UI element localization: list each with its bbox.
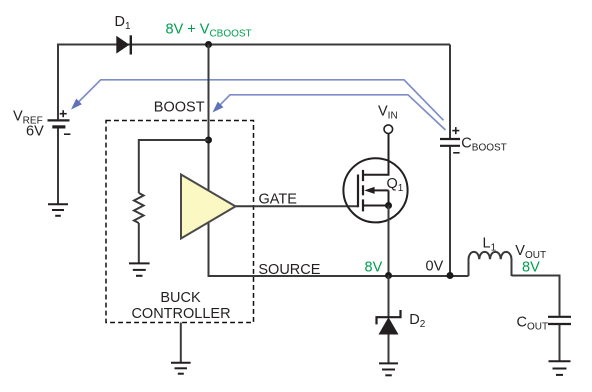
wire L1 to COUT corner <box>512 276 560 316</box>
wire Q1 source down <box>388 206 390 276</box>
node BOOST <box>205 137 212 144</box>
inductor L1 <box>469 252 512 276</box>
wire D2 to ground <box>388 335 390 363</box>
svg-text:BUCK: BUCK <box>160 290 201 306</box>
svg-text:CONTROLLER: CONTROLLER <box>131 306 230 322</box>
svg-text:0V: 0V <box>426 259 444 275</box>
drain lead <box>363 134 389 175</box>
svg-text:GATE: GATE <box>259 191 298 207</box>
op-amp driver triangle <box>181 175 236 239</box>
battery VREF <box>48 120 70 127</box>
node 0V <box>447 272 454 279</box>
ground under D2 <box>379 363 398 375</box>
wire top rail <box>58 44 450 46</box>
svg-text:SOURCE: SOURCE <box>258 262 320 278</box>
blue annotation arrow to VREF + <box>77 80 444 121</box>
wire resistor to ground <box>138 223 140 263</box>
capacitor CBOOST <box>440 139 460 146</box>
svg-text:BOOST: BOOST <box>154 99 205 115</box>
zener diode D2 <box>377 310 426 335</box>
svg-text:8V: 8V <box>365 260 383 276</box>
wire boost vertical (top node down behind amp to source corner) <box>209 45 469 277</box>
wire 8V node to D2 <box>388 276 390 317</box>
ground under resistor <box>129 263 150 275</box>
gate bar <box>357 175 359 208</box>
resistor <box>134 193 144 223</box>
transistor Q1 <box>343 134 407 223</box>
channel bar segments <box>362 170 364 212</box>
wire gate <box>236 205 359 207</box>
diode D1 <box>115 14 131 55</box>
svg-text:8V: 8V <box>522 259 540 275</box>
wire box stem to ground <box>180 323 182 363</box>
wire COUT to ground <box>559 325 561 361</box>
ground under COUT <box>549 361 571 375</box>
wire right rail (CBOOST branch) <box>449 45 451 139</box>
capacitor COUT <box>548 317 571 324</box>
node 8V+VCBOOST <box>205 41 212 48</box>
body arrow <box>373 189 389 191</box>
wire battery to ground <box>57 128 59 203</box>
wire battery riser <box>57 44 59 120</box>
source node dot <box>385 202 392 209</box>
arrow to source connector <box>388 190 390 205</box>
blue annotation arrow to BOOST node <box>218 95 445 130</box>
ground under box <box>171 363 191 374</box>
svg-text:6V: 6V <box>26 124 44 140</box>
source lead <box>363 205 389 207</box>
ground under VREF <box>48 204 68 216</box>
wire boost node to resistor <box>139 140 209 193</box>
node 8V <box>385 272 392 279</box>
dashed box buck controller <box>106 121 254 323</box>
